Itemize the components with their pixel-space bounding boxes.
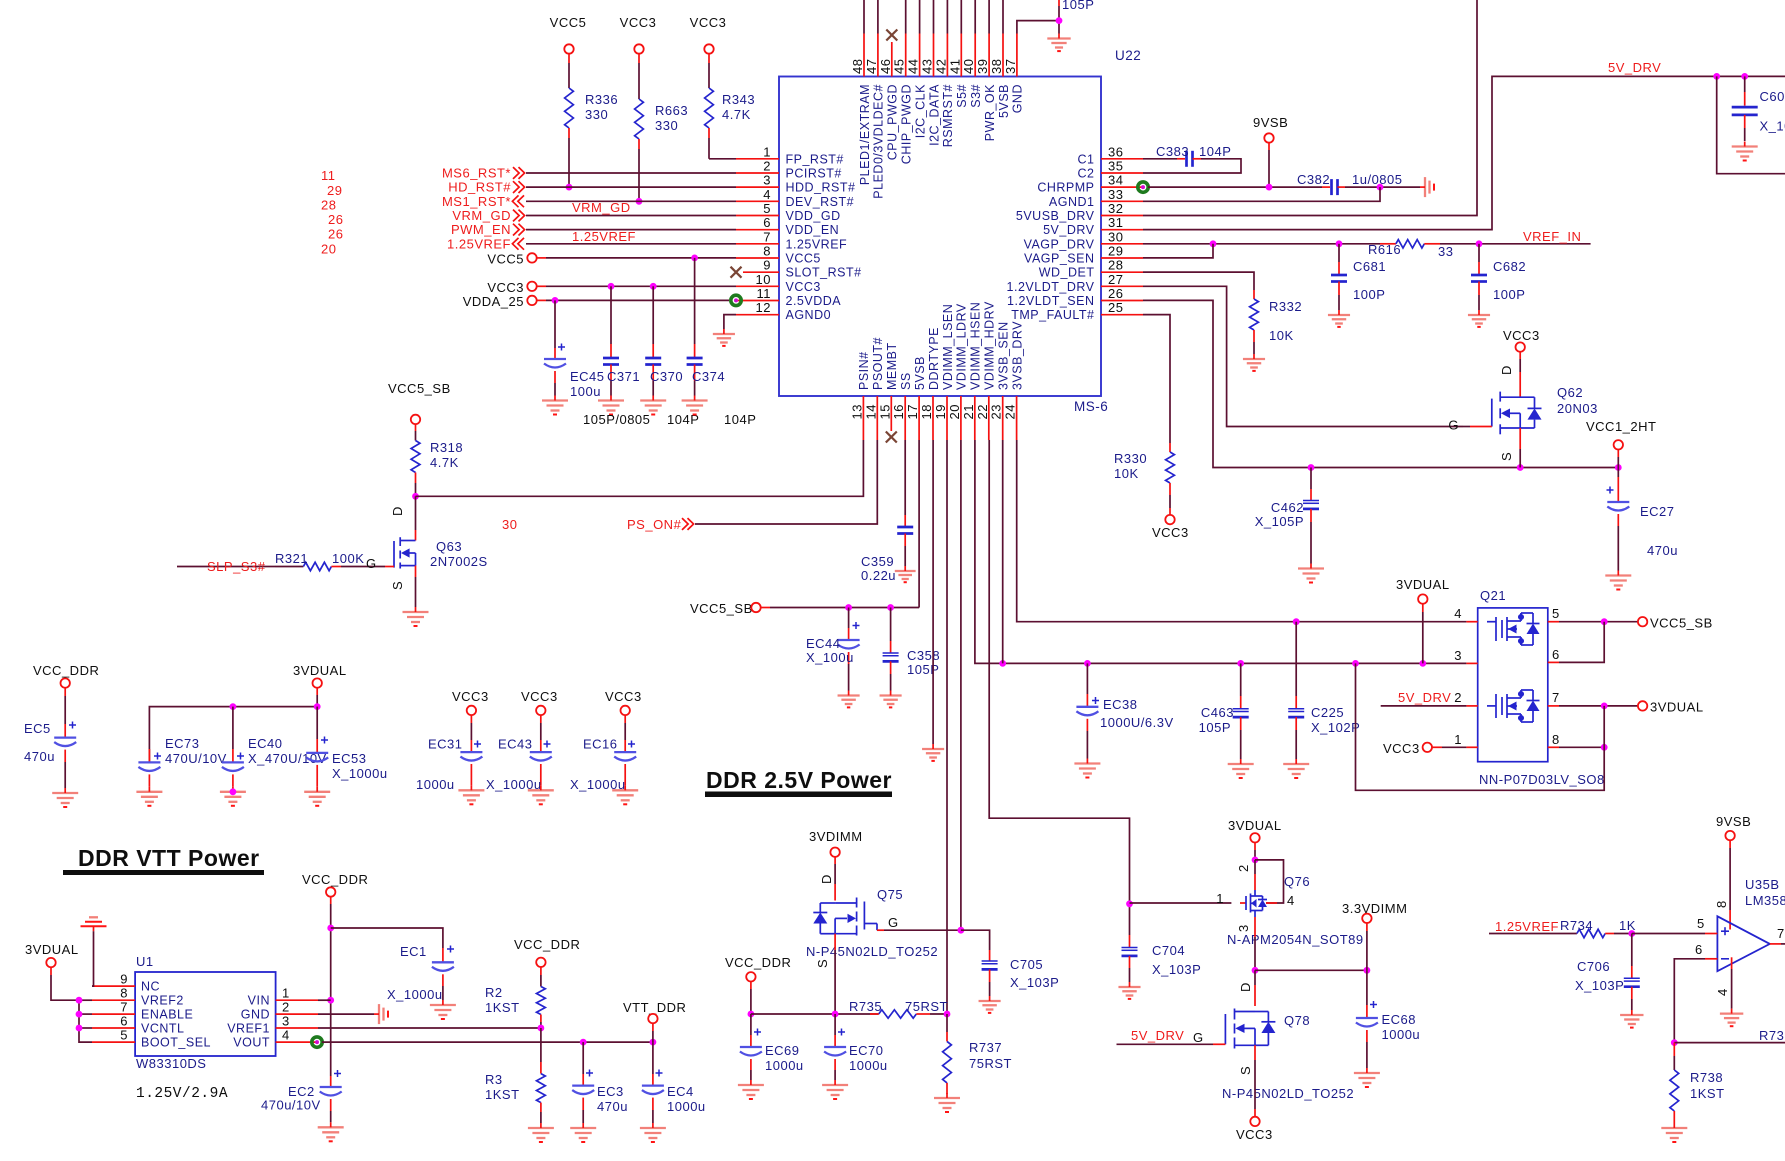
svg-text:U1: U1 — [136, 954, 154, 969]
green test ring pin11 — [731, 295, 741, 305]
junction rail drop — [1352, 660, 1359, 667]
wire VCC3 to Q21 pin1 — [1432, 746, 1442, 748]
junction 9VSB on pin34 row — [1266, 184, 1273, 191]
junction R336 to HD_RST# row — [566, 184, 573, 191]
wire VCC_DDR row to R735 — [751, 1013, 879, 1015]
svg-text:SLOT_RST#: SLOT_RST# — [786, 266, 862, 280]
svg-text:14: 14 — [863, 404, 878, 419]
svg-text:D: D — [819, 874, 834, 884]
U22 right pin stubs pins 36-25 — [1101, 159, 1143, 315]
svg-text:VCC_DDR: VCC_DDR — [514, 937, 580, 952]
junction VIN — [327, 997, 334, 1004]
op-amp U22 body (MS-6 controller IC box) — [779, 77, 1101, 397]
svg-text:104P: 104P — [1199, 144, 1231, 159]
svg-text:CHIP_PWGD: CHIP_PWGD — [900, 84, 914, 164]
svg-text:8: 8 — [763, 244, 771, 259]
svg-text:5V_DRV: 5V_DRV — [1043, 223, 1095, 237]
svg-text:C382: C382 — [1297, 172, 1330, 187]
capacitor EC68 (electrolytic) — [1366, 970, 1368, 1005]
svg-text:VCC3: VCC3 — [605, 689, 642, 704]
ground R332 — [1243, 354, 1265, 371]
wire feedback to R736 (right edge) — [1674, 1042, 1785, 1044]
svg-text:EC69: EC69 — [765, 1043, 800, 1058]
svg-text:3VDUAL: 3VDUAL — [1650, 700, 1704, 715]
svg-text:NC: NC — [141, 980, 160, 994]
svg-text:36: 36 — [1108, 144, 1123, 159]
ground R3 — [528, 1123, 554, 1142]
ground EC2 — [318, 1122, 344, 1141]
net flag SLP_S3# / resistor R321 100K to Q63 gate — [177, 566, 264, 568]
U35B minus input marker — [1721, 958, 1729, 960]
svg-text:2: 2 — [1454, 690, 1462, 705]
U22 left pin names — [786, 152, 862, 322]
capacitor EC45 (electrolytic) — [554, 300, 556, 348]
svg-text:1.25VREF: 1.25VREF — [1495, 919, 1559, 934]
U35B pin8 supply lead — [1729, 840, 1731, 848]
wire pin28 WD_DET to R332 — [1143, 272, 1254, 290]
wire 9VSB to pin34 row — [1268, 143, 1270, 150]
capacitor EC31 (electrolytic) — [470, 715, 472, 723]
ground C681 — [1328, 310, 1350, 327]
svg-text:AGND1: AGND1 — [1049, 195, 1095, 209]
svg-text:5VSB: 5VSB — [913, 356, 927, 390]
svg-text:D: D — [1238, 982, 1253, 992]
power symbol VCC5 (R336) — [564, 44, 573, 53]
svg-text:EC73: EC73 — [165, 736, 200, 751]
wire pin31 5V_DRV riser — [1143, 76, 1717, 229]
junction VCC3 row to C370 — [650, 283, 657, 290]
wire pin13 PSIN# row — [416, 440, 864, 496]
svg-text:VCC3: VCC3 — [690, 15, 727, 30]
svg-text:CPU_PWGD: CPU_PWGD — [886, 84, 900, 160]
wire C382 to junction and right ground — [1345, 186, 1420, 188]
svg-text:3VDUAL: 3VDUAL — [293, 663, 347, 678]
wire pin21 VDIMM_HSEN down then right — [975, 440, 1467, 663]
svg-text:VCC5_SB: VCC5_SB — [690, 601, 753, 616]
junction U1 pin7 — [76, 1011, 83, 1018]
capacitor C358 — [890, 608, 892, 642]
Q21 pin6 stub and number — [1548, 661, 1559, 663]
junction C681 — [1336, 240, 1343, 247]
svg-text:6: 6 — [763, 215, 771, 230]
capacitor C682 — [1478, 244, 1480, 262]
svg-text:3VDIMM: 3VDIMM — [809, 829, 863, 844]
svg-text:20: 20 — [321, 242, 336, 257]
wire Q21 pin7 to 3VDUAL flag — [1559, 705, 1638, 707]
svg-text:WD_DET: WD_DET — [1039, 266, 1095, 280]
svg-text:2: 2 — [1236, 864, 1251, 872]
junction pin5/pin6 tie — [1601, 618, 1608, 625]
wire to op-amp plus input pin5 — [1632, 933, 1705, 935]
wire VCC3 to pin10 — [537, 285, 546, 287]
svg-text:EC1: EC1 — [400, 944, 427, 959]
wire Q21 pin6 up to pin5 — [1559, 622, 1604, 663]
wire HD_RST# to pin3 — [526, 186, 736, 188]
ground EC68 — [1354, 1068, 1380, 1087]
junction EC4 / VTT_DDR — [650, 1039, 657, 1046]
junction Q75 gate / pin20 — [958, 927, 965, 934]
svg-text:C463: C463 — [1201, 705, 1234, 720]
green test ring U1 VOUT pin4 — [312, 1037, 322, 1047]
ground C462 — [1298, 564, 1324, 583]
svg-text:VCC3: VCC3 — [1236, 1127, 1273, 1142]
ground C704 — [1118, 982, 1140, 999]
U1 right pin stubs — [276, 1000, 318, 1042]
svg-text:R336: R336 — [585, 92, 618, 107]
ground EC27 — [1605, 571, 1631, 590]
transistor Q75 N-P45N02LD_TO252 (N-MOSFET, mirrored) — [813, 898, 864, 936]
U22 top pin stubs pins 48-37 — [864, 34, 1017, 77]
wire MS6_RST* to pin2 — [526, 172, 736, 174]
U22 left pin numbers 1-12 — [756, 144, 771, 315]
junction pin8 — [1601, 744, 1608, 751]
svg-text:4: 4 — [763, 187, 771, 202]
svg-text:VCC5: VCC5 — [487, 252, 524, 267]
capacitor C370 — [652, 286, 654, 344]
wire U1 GND pin2 to right ground — [318, 1013, 374, 1015]
svg-text:105P: 105P — [1199, 720, 1231, 735]
svg-text:37: 37 — [1003, 59, 1018, 74]
svg-text:R735: R735 — [849, 999, 882, 1014]
junction Q76 pin2/pin4 — [1252, 857, 1259, 864]
svg-text:VCC5_SB: VCC5_SB — [388, 381, 451, 396]
svg-text:G: G — [1193, 1030, 1204, 1045]
ground C225 — [1283, 759, 1309, 778]
svg-text:25: 25 — [1108, 300, 1123, 315]
wire PS_ON# to pin14 — [695, 440, 877, 524]
svg-text:19: 19 — [933, 404, 948, 419]
svg-text:PLED0/3VDLDEC#: PLED0/3VDLDEC# — [872, 84, 886, 199]
junction 5V_DRV left — [1713, 73, 1720, 80]
svg-text:5: 5 — [120, 1028, 128, 1043]
svg-text:105P/0805: 105P/0805 — [583, 412, 650, 427]
svg-text:26: 26 — [328, 212, 343, 227]
svg-text:VREF_IN: VREF_IN — [1523, 229, 1581, 244]
svg-text:RSMRST#: RSMRST# — [941, 84, 955, 147]
junction EC3 — [580, 1039, 587, 1046]
resistor R321 (series) — [264, 566, 275, 568]
capacitor EC5 (electrolytic) — [64, 688, 66, 696]
svg-text:VRM_GD: VRM_GD — [572, 200, 631, 215]
svg-text:1000u: 1000u — [849, 1058, 888, 1073]
svg-text:75RST: 75RST — [969, 1056, 1012, 1071]
capacitor EC40 (electrolytic) — [232, 707, 234, 749]
svg-text:HD_RST#: HD_RST# — [448, 180, 511, 195]
svg-text:32: 32 — [1108, 201, 1123, 216]
wire pin24 3VSB_DRV down then right to Q21 pin4 — [1017, 440, 1467, 622]
resistor R3 — [540, 1028, 542, 1062]
svg-text:DDR VTT Power: DDR VTT Power — [78, 845, 260, 871]
junction VCC1_2HT stub — [1615, 464, 1622, 471]
resistor R616 (series) — [1380, 243, 1396, 245]
wire VTT_DDR stub — [652, 1023, 654, 1031]
svg-text:VCNTL: VCNTL — [141, 1022, 184, 1036]
svg-text:MS-6: MS-6 — [1074, 399, 1108, 414]
wire R616 to VREF_IN — [1440, 243, 1591, 245]
junction EC40 on rail — [230, 703, 237, 710]
svg-text:AGND0: AGND0 — [786, 308, 832, 322]
capacitor EC43 (electrolytic) — [540, 715, 542, 723]
svg-text:G: G — [366, 556, 377, 571]
svg-text:C225: C225 — [1311, 705, 1344, 720]
ground C706 — [1620, 1010, 1643, 1028]
capacitor EC3 (electrolytic) — [582, 1042, 584, 1074]
svg-text:4.7K: 4.7K — [430, 455, 459, 470]
svg-text:6: 6 — [1695, 942, 1703, 957]
svg-text:27: 27 — [1108, 272, 1123, 287]
svg-text:DEV_RST#: DEV_RST# — [786, 195, 855, 209]
svg-text:VCC3: VCC3 — [1383, 741, 1420, 756]
svg-text:38: 38 — [989, 59, 1004, 74]
junction C225 on 3VSB_DRV row — [1293, 618, 1300, 625]
svg-text:GND: GND — [1011, 84, 1025, 113]
svg-text:EC68: EC68 — [1382, 1012, 1417, 1027]
svg-text:EC44: EC44 — [806, 636, 841, 651]
svg-text:40: 40 — [961, 59, 976, 74]
wire MS1_RST* to pin4 — [526, 200, 736, 202]
ground C374 — [682, 396, 708, 415]
svg-text:C358: C358 — [907, 648, 940, 663]
wire VOUT VTT_DDR rail — [322, 1041, 653, 1043]
svg-text:5: 5 — [763, 201, 771, 216]
svg-text:VCC3: VCC3 — [487, 280, 524, 295]
ground EC31 — [458, 785, 484, 804]
svg-text:R663: R663 — [655, 103, 688, 118]
resistor R332 — [1253, 290, 1255, 299]
svg-text:N-P45N02LD_TO252: N-P45N02LD_TO252 — [1222, 1086, 1354, 1101]
wire pin20 VDIMM_LDRV down to Q75 gate row — [960, 440, 962, 930]
green test ring pin34 — [1138, 182, 1148, 192]
U22 bottom pin stubs pins 13-24 — [863, 396, 1016, 440]
svg-text:PCIRST#: PCIRST# — [786, 167, 842, 181]
svg-text:ENABLE: ENABLE — [141, 1008, 193, 1022]
svg-text:VTT_DDR: VTT_DDR — [623, 1000, 686, 1015]
svg-text:1000u: 1000u — [416, 777, 455, 792]
ground EC73 — [136, 787, 162, 806]
ground pin18 — [922, 744, 944, 761]
svg-text:EC27: EC27 — [1640, 504, 1675, 519]
svg-text:7: 7 — [1777, 926, 1785, 941]
U22 top pin numbers 48-37 — [850, 59, 1018, 74]
svg-text:470u: 470u — [24, 749, 55, 764]
capacitor EC44 (electrolytic) — [848, 608, 850, 629]
svg-text:23: 23 — [989, 404, 1004, 419]
U22 left pin stubs pins 1-12 — [736, 159, 779, 315]
svg-text:PS_ON#: PS_ON# — [627, 517, 682, 532]
svg-text:X_103P: X_103P — [1575, 978, 1624, 993]
svg-text:X_100u: X_100u — [806, 650, 854, 665]
svg-text:R332: R332 — [1269, 299, 1302, 314]
svg-text:C60: C60 — [1760, 89, 1785, 104]
ground C463 — [1228, 759, 1254, 778]
svg-text:C370: C370 — [650, 369, 683, 384]
svg-text:30: 30 — [1108, 229, 1123, 244]
junction pin33 tie — [1377, 184, 1384, 191]
svg-text:5V_DRV: 5V_DRV — [1398, 690, 1451, 705]
wire gate row to C705 — [961, 930, 990, 950]
svg-text:10: 10 — [756, 272, 771, 287]
svg-text:PSOUT#: PSOUT# — [871, 337, 885, 390]
svg-text:26: 26 — [1108, 286, 1123, 301]
Q21 pin3 stub and number — [1466, 662, 1477, 664]
svg-text:3VDUAL: 3VDUAL — [1396, 577, 1450, 592]
wire PWM_EN to pin6 — [526, 229, 736, 231]
junction Q75 source / EC70 — [832, 1011, 839, 1018]
junction R663 to MS1_RST* row — [636, 198, 643, 205]
svg-text:4: 4 — [1454, 606, 1462, 621]
junction EC38 — [1084, 660, 1091, 667]
svg-text:Q75: Q75 — [877, 887, 903, 902]
ground EC38 — [1074, 759, 1100, 778]
wire pin18 DDRTYPE to ground — [932, 440, 934, 744]
svg-text:6: 6 — [1552, 647, 1560, 662]
ground R738 — [1661, 1123, 1687, 1142]
capacitor C359 (pin16 SS) — [904, 440, 906, 515]
capacitor EC1 (electrolytic) — [331, 928, 443, 948]
svg-text:35: 35 — [1108, 159, 1123, 174]
svg-text:34: 34 — [1108, 173, 1123, 188]
capacitor C706 — [1631, 934, 1633, 967]
svg-text:470U/10V: 470U/10V — [165, 751, 227, 766]
U22 pin 9 no-connect X — [731, 267, 742, 278]
svg-text:R737: R737 — [969, 1040, 1002, 1055]
U22 right pin numbers 36-25 — [1108, 144, 1123, 315]
svg-text:R330: R330 — [1114, 451, 1147, 466]
junction C706 / op-amp + — [1628, 930, 1635, 937]
svg-text:Q21: Q21 — [1480, 588, 1506, 603]
power symbol VCC3 (Q78 source, down) — [1250, 1117, 1259, 1126]
svg-text:1: 1 — [1454, 732, 1462, 747]
svg-text:28: 28 — [321, 198, 336, 213]
wire U1 VIN stub to VCC_DDR column — [318, 999, 331, 1001]
capacitor EC27 (electrolytic) — [1617, 468, 1619, 478]
capacitor C704 — [1129, 904, 1131, 935]
svg-text:EC38: EC38 — [1103, 697, 1138, 712]
power symbol VCC3 (R663) — [634, 44, 643, 53]
svg-text:VDIMM_LDRV: VDIMM_LDRV — [955, 303, 969, 390]
svg-text:8: 8 — [120, 986, 128, 1001]
svg-text:X_105P: X_105P — [1255, 514, 1304, 529]
resistor R734 (series) — [1577, 929, 1605, 937]
svg-text:4: 4 — [1287, 893, 1295, 908]
ground (right-pointing) C382 — [1420, 177, 1434, 197]
wire stub above pin37 ground junction — [1058, 6, 1060, 21]
svg-text:LM358N: LM358N — [1745, 893, 1785, 908]
Q62 source lead — [1519, 428, 1521, 449]
svg-text:EC31: EC31 — [428, 737, 463, 752]
svg-text:1000U/6.3V: 1000U/6.3V — [1100, 715, 1174, 730]
svg-text:VCC1_2HT: VCC1_2HT — [1586, 419, 1656, 434]
junction U1 pin8 — [76, 997, 83, 1004]
svg-text:EC4: EC4 — [667, 1084, 694, 1099]
svg-text:GND: GND — [241, 1008, 270, 1022]
svg-text:S: S — [390, 581, 405, 590]
svg-text:29: 29 — [1108, 244, 1123, 259]
junction EC68 / 3.3VDIMM — [1364, 967, 1371, 974]
svg-text:VAGP_DRV: VAGP_DRV — [1024, 237, 1095, 251]
svg-text:22: 22 — [975, 404, 990, 419]
svg-text:VCC_DDR: VCC_DDR — [33, 663, 99, 678]
wire VCC5 to pin8 — [537, 257, 546, 259]
capacitor C382 (series) — [1322, 186, 1330, 188]
svg-text:VAGP_SEN: VAGP_SEN — [1024, 252, 1094, 266]
svg-text:EC45: EC45 — [570, 369, 605, 384]
Q75 drain lead — [834, 857, 836, 864]
wire pin32 5VUSB_DRV to top edge — [1143, 0, 1477, 216]
resistor R2 — [540, 967, 542, 975]
capacitor EC53 (electrolytic) — [316, 707, 318, 739]
svg-text:C704: C704 — [1152, 943, 1185, 958]
svg-text:TMP_FAULT#: TMP_FAULT# — [1011, 308, 1094, 322]
svg-text:0.22u: 0.22u — [861, 568, 896, 583]
svg-text:15: 15 — [877, 404, 892, 419]
U35B output pin7 — [1770, 943, 1781, 945]
svg-text:1u/0805: 1u/0805 — [1352, 172, 1403, 187]
svg-text:44: 44 — [906, 59, 921, 74]
svg-text:C2: C2 — [1078, 167, 1095, 181]
svg-text:100P: 100P — [1493, 287, 1525, 302]
svg-text:C682: C682 — [1493, 259, 1526, 274]
svg-text:105P: 105P — [1062, 0, 1094, 12]
svg-text:1: 1 — [282, 986, 290, 1001]
svg-text:1KST: 1KST — [485, 1000, 520, 1015]
wire pin34 CHRPMP row — [1148, 186, 1322, 188]
resistor R343 — [708, 54, 710, 63]
svg-text:C1: C1 — [1078, 152, 1095, 166]
ground EC70 — [822, 1080, 848, 1099]
svg-text:5V_DRV: 5V_DRV — [1131, 1028, 1184, 1043]
svg-text:17: 17 — [905, 404, 920, 419]
svg-text:DDR 2.5V Power: DDR 2.5V Power — [706, 767, 892, 793]
svg-text:104P: 104P — [724, 412, 756, 427]
Q21 pin2 stub and number — [1466, 705, 1477, 707]
op-amp U1 W83310DS regulator body — [135, 972, 276, 1056]
Q21 lower MOSFET symbol — [1487, 690, 1540, 722]
junction 5V_DRV at C60 — [1741, 73, 1748, 80]
svg-text:470u/10V: 470u/10V — [261, 1098, 321, 1113]
svg-text:Q76: Q76 — [1284, 874, 1310, 889]
svg-text:S3#: S3# — [969, 84, 983, 108]
junction C462 on rail — [1308, 464, 1315, 471]
svg-text:R318: R318 — [430, 440, 463, 455]
svg-text:3VSB_DRV: 3VSB_DRV — [1010, 321, 1024, 390]
wire VDDA_25 to pin11 — [537, 299, 546, 301]
junction pin23 on VDIMM_HSEN row — [999, 660, 1006, 667]
wire 1.25VREF to pin7 — [526, 243, 736, 245]
svg-text:VRM_GD: VRM_GD — [452, 208, 511, 223]
svg-text:12: 12 — [756, 300, 771, 315]
svg-text:VDIMM_HSEN: VDIMM_HSEN — [969, 302, 983, 390]
svg-text:1KST: 1KST — [1690, 1086, 1725, 1101]
ground C371 — [598, 396, 624, 415]
ground C682 — [1468, 310, 1490, 327]
svg-text:VREF1: VREF1 — [227, 1022, 270, 1036]
junction C358 — [887, 604, 894, 611]
svg-text:EC3: EC3 — [597, 1084, 624, 1099]
svg-text:7: 7 — [1552, 690, 1560, 705]
ground C359 — [895, 566, 916, 582]
svg-text:G: G — [888, 915, 899, 930]
junction pin19 / R737 — [944, 1011, 951, 1018]
svg-text:330: 330 — [585, 107, 608, 122]
svg-text:X_103P: X_103P — [1152, 962, 1201, 977]
svg-text:VCC5: VCC5 — [550, 15, 587, 30]
Q62 gate red stub — [1463, 426, 1470, 428]
svg-text:7: 7 — [120, 1000, 128, 1015]
svg-text:VCC5_SB: VCC5_SB — [1650, 616, 1713, 631]
svg-text:EC40: EC40 — [248, 736, 283, 751]
svg-text:3: 3 — [763, 173, 771, 188]
